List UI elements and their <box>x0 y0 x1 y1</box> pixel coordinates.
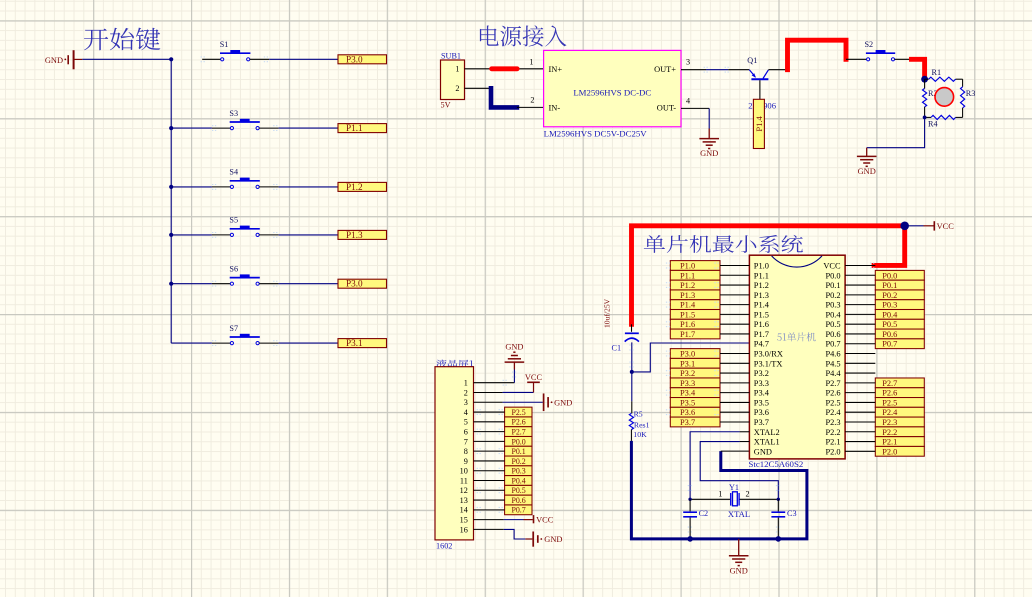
wire S3 to net label <box>259 127 278 129</box>
wire bus to S7 <box>171 342 212 344</box>
svg-text:P4.4: P4.4 <box>825 369 841 378</box>
wire SUB1 pin1 to IN+ <box>465 68 544 70</box>
svg-text:IN+: IN+ <box>549 65 563 74</box>
wires P0 boxes to IC <box>845 274 875 276</box>
wire S1 to net label <box>250 58 269 60</box>
crystal Y1 XTAL <box>690 483 778 519</box>
svg-text:P2.6: P2.6 <box>511 418 525 427</box>
connector SUB1 <box>441 51 465 109</box>
svg-text:P3.1/TX: P3.1/TX <box>754 359 783 368</box>
power port VCC at LCD pin15 <box>534 515 554 524</box>
wire thick red jog over to S2 <box>788 40 847 69</box>
svg-text:3: 3 <box>464 398 468 407</box>
svg-text:GND: GND <box>700 149 718 158</box>
svg-text:P1.3: P1.3 <box>680 291 695 300</box>
svg-text:5: 5 <box>464 418 468 427</box>
svg-text:P0.3: P0.3 <box>825 301 840 310</box>
svg-text:P0.0: P0.0 <box>825 271 840 280</box>
net label box P3.0 row S6 <box>338 279 387 289</box>
node junction key bus row S5 <box>169 233 173 237</box>
svg-text:P0.6: P0.6 <box>825 330 840 339</box>
wire GND to key bus <box>82 58 171 60</box>
net label box P3.0 row S1 <box>338 54 387 64</box>
net label stack LCD data pins <box>505 407 532 515</box>
svg-text:P0.0: P0.0 <box>511 437 525 446</box>
node junction key bus row S4 <box>169 185 173 189</box>
wires P1 boxes to IC <box>720 265 749 267</box>
svg-text:P2.7: P2.7 <box>511 428 525 437</box>
svg-text:P0.6: P0.6 <box>882 330 897 339</box>
svg-text:1: 1 <box>529 57 533 66</box>
svg-text:P2.2: P2.2 <box>882 428 897 437</box>
wire MCU GND pin <box>721 450 750 452</box>
svg-text:P0.3: P0.3 <box>511 467 525 476</box>
svg-text:P0.2: P0.2 <box>825 291 840 300</box>
wire S5 to net label <box>259 234 278 236</box>
wire pin2 to IN- <box>517 106 544 108</box>
svg-text:S6: S6 <box>229 264 238 273</box>
net label stack P2.7-P2.0 <box>875 378 924 456</box>
svg-text:P2.5: P2.5 <box>825 398 840 407</box>
svg-text:P0.5: P0.5 <box>511 486 525 495</box>
svg-text:2: 2 <box>530 95 534 104</box>
wire lead into S5 <box>212 234 230 236</box>
svg-text:GND: GND <box>554 398 572 407</box>
capacitor C1 polarized <box>612 324 639 352</box>
node junction bridge bottom-left <box>923 116 927 120</box>
svg-text:P0.3: P0.3 <box>882 301 897 310</box>
svg-text:P3.1: P3.1 <box>346 338 363 348</box>
svg-text:5V: 5V <box>441 101 451 110</box>
net label box P1.1 row S3 <box>338 123 387 133</box>
DC-DC module U1 LM2596HVS <box>544 50 681 126</box>
wire VCC pin to red rail <box>845 265 875 267</box>
svg-text:C3: C3 <box>787 509 797 518</box>
wire stub to crystal GND <box>738 539 740 556</box>
wire XTAL2 net <box>740 431 750 433</box>
svg-text:8: 8 <box>464 447 468 456</box>
wire bus to S3 <box>171 127 212 129</box>
svg-text:GND: GND <box>754 447 772 456</box>
svg-text:6: 6 <box>464 428 468 437</box>
svg-text:P0.7: P0.7 <box>825 340 840 349</box>
node junction VCC <box>900 222 909 231</box>
svg-text:P0.4: P0.4 <box>825 310 841 319</box>
svg-text:13: 13 <box>460 496 468 505</box>
svg-text:VCC: VCC <box>536 515 554 524</box>
net label stack P3.0-P3.7 <box>670 349 720 427</box>
svg-text:P4.6: P4.6 <box>825 350 840 359</box>
title 电源接入 <box>480 25 567 46</box>
svg-text:P2.0: P2.0 <box>882 447 897 456</box>
svg-text:1: 1 <box>464 379 468 388</box>
resistor R4 <box>925 115 963 128</box>
svg-text:Res1: Res1 <box>634 421 650 430</box>
svg-text:P3.5: P3.5 <box>680 398 695 407</box>
svg-text:P1.5: P1.5 <box>754 310 769 319</box>
node junction crystal right <box>777 498 780 501</box>
wire highlighted red segment pin1 <box>492 66 518 71</box>
wires P3 boxes to IC <box>720 353 749 355</box>
wire Q1 emitter lead <box>768 69 786 71</box>
svg-text:P3.0: P3.0 <box>680 350 695 359</box>
wire S6 to net label <box>259 283 278 285</box>
svg-text:P1.7: P1.7 <box>680 330 695 339</box>
wire SUB1 pin2 lead <box>465 87 492 89</box>
svg-text:P2.1: P2.1 <box>882 438 897 447</box>
wire LCD pin3 to GND <box>474 401 503 403</box>
wire red end to S2 <box>846 58 867 60</box>
pushbutton S3 <box>229 109 259 130</box>
svg-text:P0.5: P0.5 <box>825 320 840 329</box>
svg-text:10: 10 <box>460 467 468 476</box>
pushbutton S7 <box>229 324 259 345</box>
svg-text:P1.7: P1.7 <box>754 330 769 339</box>
resistor R5 10K <box>629 409 649 439</box>
svg-text:P3.5: P3.5 <box>754 398 769 407</box>
wire marks OUT+ <box>704 67 709 72</box>
ground earth below S2 bridge <box>857 156 877 176</box>
svg-text:P1.4: P1.4 <box>754 301 770 310</box>
svg-text:P1.3: P1.3 <box>346 230 363 240</box>
LCD connector body <box>435 367 474 540</box>
svg-text:P0.7: P0.7 <box>511 506 525 515</box>
svg-text:OUT+: OUT+ <box>654 65 676 74</box>
resistor R1 <box>925 68 963 81</box>
svg-text:P1.6: P1.6 <box>680 320 695 329</box>
ground earth at OUT- <box>699 139 719 159</box>
svg-text:P3.0: P3.0 <box>346 54 363 64</box>
svg-text:GND: GND <box>505 343 523 352</box>
svg-text:P1.3: P1.3 <box>754 291 769 300</box>
svg-text:P0.1: P0.1 <box>511 447 525 456</box>
svg-text:P2.1: P2.1 <box>825 438 840 447</box>
svg-text:P0.6: P0.6 <box>511 496 525 505</box>
svg-text:S5: S5 <box>229 216 238 225</box>
wire marks C1 <box>629 345 634 350</box>
svg-text:S4: S4 <box>229 168 238 177</box>
svg-text:P2.4: P2.4 <box>825 408 841 417</box>
wire bus to S4 <box>171 186 212 188</box>
pushbutton S6 <box>229 264 259 285</box>
svg-text:S7: S7 <box>229 324 238 333</box>
wire Q1 base down <box>759 80 761 99</box>
svg-text:P0.1: P0.1 <box>882 281 897 290</box>
svg-text:2: 2 <box>746 490 750 499</box>
wire lead into S3 <box>212 127 230 129</box>
svg-text:P3.4: P3.4 <box>754 389 770 398</box>
svg-text:7: 7 <box>464 437 468 446</box>
svg-text:P3.0: P3.0 <box>346 279 363 289</box>
node junction key bus row S6 <box>169 282 173 286</box>
svg-text:XTAL1: XTAL1 <box>754 438 780 447</box>
svg-text:VCC: VCC <box>525 373 543 382</box>
transistor Q1 2N3906 <box>747 56 776 110</box>
svg-text:P3.7: P3.7 <box>754 418 769 427</box>
svg-text:P1.4: P1.4 <box>754 115 764 131</box>
svg-text:GND: GND <box>45 56 63 65</box>
svg-text:GND: GND <box>544 535 562 544</box>
svg-text:Y1: Y1 <box>729 483 739 492</box>
svg-text:P3.2: P3.2 <box>754 369 769 378</box>
wire thick red VCC rail <box>632 226 905 324</box>
svg-text:P1.2: P1.2 <box>754 281 769 290</box>
capacitor C2 <box>683 499 708 539</box>
pushbutton S1 <box>220 40 251 61</box>
svg-text:R3: R3 <box>966 89 976 98</box>
resistor R2 <box>923 79 938 117</box>
svg-text:2: 2 <box>455 84 459 93</box>
wire OUT- down to GND <box>681 107 709 109</box>
svg-text:P0.4: P0.4 <box>882 310 898 319</box>
svg-text:P3.3: P3.3 <box>754 379 769 388</box>
net label box P1.3 row S5 <box>338 230 387 240</box>
svg-text:1602: 1602 <box>436 541 452 550</box>
svg-text:SUB1: SUB1 <box>441 51 461 60</box>
svg-text:P1.1: P1.1 <box>346 123 363 133</box>
net label stack P1.0-P1.7 <box>670 261 720 339</box>
svg-text:P1.5: P1.5 <box>680 310 695 319</box>
wire R5 bottom lead <box>630 430 632 441</box>
svg-text:11: 11 <box>460 476 468 485</box>
wire bus to S5 <box>171 234 212 236</box>
wire thick blue pin2 jog <box>491 88 517 107</box>
IC U2 51单片机 body <box>749 255 845 459</box>
power port GND right of LCD pin3 <box>544 393 573 411</box>
svg-text:16: 16 <box>460 525 468 534</box>
node junction key bus row S1 <box>169 57 173 61</box>
svg-text:R4: R4 <box>928 120 938 129</box>
svg-text:S1: S1 <box>220 40 229 49</box>
wire lead into S7 <box>212 342 230 344</box>
wire node down to R5 <box>631 372 633 401</box>
node junction C3 bottom <box>776 536 782 542</box>
svg-text:R5: R5 <box>634 409 643 418</box>
svg-text:10K: 10K <box>633 430 647 439</box>
wire LCD pin1 up to GND <box>474 382 515 384</box>
svg-text:15: 15 <box>460 516 468 525</box>
key bus vertical wire <box>170 59 172 343</box>
svg-text:P0.2: P0.2 <box>882 291 897 300</box>
ground earth flipped above LCD pin1 <box>505 343 525 362</box>
power port GND (bar style, left of key bus) <box>45 50 82 69</box>
wire XTAL1 net <box>740 441 750 443</box>
svg-text:9: 9 <box>464 457 468 466</box>
svg-text:P0.4: P0.4 <box>511 476 525 485</box>
svg-text:P0.2: P0.2 <box>511 457 525 466</box>
svg-text:GND: GND <box>730 566 748 575</box>
wire lead into S6 <box>212 283 230 285</box>
svg-text:XTAL2: XTAL2 <box>754 428 780 437</box>
wire bus to S6 <box>171 283 212 285</box>
svg-text:1: 1 <box>455 64 459 73</box>
svg-text:P4.7: P4.7 <box>754 340 769 349</box>
net label box P3.1 row S7 <box>338 338 387 348</box>
svg-text:VCC: VCC <box>823 262 841 271</box>
svg-text:P2.3: P2.3 <box>882 418 897 427</box>
ground earth below crystal <box>729 556 749 576</box>
svg-text:IN-: IN- <box>549 103 561 112</box>
IC center label 51单片机 <box>777 332 816 341</box>
wire S2 to bridge <box>895 58 912 60</box>
svg-text:GND: GND <box>858 167 876 176</box>
svg-text:VCC: VCC <box>937 222 955 231</box>
power port VCC above LCD pin2 <box>525 373 543 383</box>
node junction C2 bottom <box>687 536 693 542</box>
svg-text:4: 4 <box>464 408 468 417</box>
wire bridge right corner <box>962 79 964 87</box>
svg-text:P2.6: P2.6 <box>882 389 897 398</box>
svg-text:P1.2: P1.2 <box>346 182 363 192</box>
svg-text:P2.7: P2.7 <box>882 379 897 388</box>
svg-text:Q1: Q1 <box>747 56 757 65</box>
svg-text:P3.6: P3.6 <box>754 408 769 417</box>
wire thick red into bridge node <box>912 59 925 75</box>
svg-text:LM2596HVS DC-DC: LM2596HVS DC-DC <box>573 87 651 97</box>
svg-text:14: 14 <box>460 506 468 515</box>
svg-text:P2.5: P2.5 <box>511 408 525 417</box>
pushbutton S4 <box>229 168 259 189</box>
svg-text:LM2596HVS DC5V-DC25V: LM2596HVS DC5V-DC25V <box>544 129 648 139</box>
svg-text:P3.2: P3.2 <box>680 369 695 378</box>
svg-text:P2.6: P2.6 <box>825 389 840 398</box>
svg-text:XTAL: XTAL <box>728 509 750 519</box>
resistor R3 <box>961 87 976 118</box>
svg-text:1: 1 <box>718 490 722 499</box>
svg-text:P0.0: P0.0 <box>882 271 897 280</box>
wires LCD pins 4-14 <box>474 411 505 413</box>
power port VCC right of junction <box>909 221 955 231</box>
node junction bridge top-left <box>921 76 928 83</box>
svg-text:P1.6: P1.6 <box>754 320 769 329</box>
wire thick GND net bottom loop <box>631 441 807 539</box>
svg-text:P1.0: P1.0 <box>680 262 695 271</box>
wire OUT+ to Q1 <box>681 69 706 71</box>
capacitor C3 <box>771 499 796 539</box>
svg-text:C2: C2 <box>699 509 709 518</box>
power port GND at LCD pin16 <box>533 532 562 547</box>
wire bridge to GND <box>867 117 925 147</box>
svg-text:3: 3 <box>686 57 690 66</box>
svg-text:P2.4: P2.4 <box>882 408 898 417</box>
svg-text:P3.6: P3.6 <box>680 408 695 417</box>
svg-text:P3.4: P3.4 <box>680 389 696 398</box>
wire lead into S4 <box>212 186 230 188</box>
title 单片机最小系统 <box>644 235 803 253</box>
LCD part 液晶屏1 label <box>436 360 473 368</box>
stub wires P4.6 P4.5 P4.4 <box>845 353 875 355</box>
svg-text:P1.1: P1.1 <box>754 271 769 280</box>
svg-text:S2: S2 <box>865 40 874 49</box>
svg-text:P3.3: P3.3 <box>680 379 695 388</box>
node junction key bus row S3 <box>169 126 173 130</box>
svg-text:12: 12 <box>460 486 468 495</box>
svg-text:P2.0: P2.0 <box>825 447 840 456</box>
svg-text:P3.1: P3.1 <box>680 359 695 368</box>
svg-text:P4.5: P4.5 <box>825 359 840 368</box>
wire C1 bottom to node <box>631 342 633 372</box>
svg-text:P2.2: P2.2 <box>825 428 840 437</box>
svg-text:P0.5: P0.5 <box>882 320 897 329</box>
pushbutton S2 <box>865 40 896 61</box>
svg-text:R1: R1 <box>932 68 942 77</box>
svg-text:P1.4: P1.4 <box>680 301 696 310</box>
node junction C1/R5 <box>630 370 634 374</box>
svg-text:P2.5: P2.5 <box>882 398 897 407</box>
svg-text:P1.1: P1.1 <box>680 271 695 280</box>
svg-text:P3.0/RX: P3.0/RX <box>754 350 783 359</box>
wire LCD pin15 to VCC <box>474 519 504 521</box>
wire LCD pin2 to VCC <box>474 391 503 393</box>
pushbutton S5 <box>229 216 259 237</box>
svg-text:P0.1: P0.1 <box>825 281 840 290</box>
svg-text:S3: S3 <box>229 109 238 118</box>
wire S7 to net label <box>259 342 278 344</box>
wire node to P4.7 pin <box>632 343 750 372</box>
svg-text:OUT-: OUT- <box>657 103 676 112</box>
svg-text:P1.0: P1.0 <box>754 262 769 271</box>
svg-text:C1: C1 <box>612 343 622 352</box>
net label box P1.2 row S4 <box>338 182 387 192</box>
svg-text:P0.7: P0.7 <box>882 340 897 349</box>
wire S4 to net label <box>259 186 278 188</box>
IC pin names <box>754 262 842 457</box>
svg-text:P2.3: P2.3 <box>825 418 840 427</box>
svg-text:P2.7: P2.7 <box>825 379 840 388</box>
wire LCD pin16 to GND <box>474 528 504 530</box>
net label box P1.4 vertical <box>753 99 764 148</box>
svg-text:10uf/25V: 10uf/25V <box>603 298 612 328</box>
svg-text:2: 2 <box>464 388 468 397</box>
wires P2 boxes to IC <box>845 382 875 384</box>
svg-text:Stc12C5A60S2: Stc12C5A60S2 <box>749 459 804 469</box>
wire lead into S1 <box>202 58 220 60</box>
wire marks crystal <box>688 486 693 491</box>
svg-text:P3.7: P3.7 <box>680 418 695 427</box>
title 开始键 <box>84 28 160 51</box>
net label stack P0.0-P0.7 <box>875 270 924 348</box>
svg-text:P1.2: P1.2 <box>680 281 695 290</box>
node junction crystal left <box>688 498 691 501</box>
sensor disc inside bridge <box>935 88 954 107</box>
svg-text:4: 4 <box>686 97 690 106</box>
